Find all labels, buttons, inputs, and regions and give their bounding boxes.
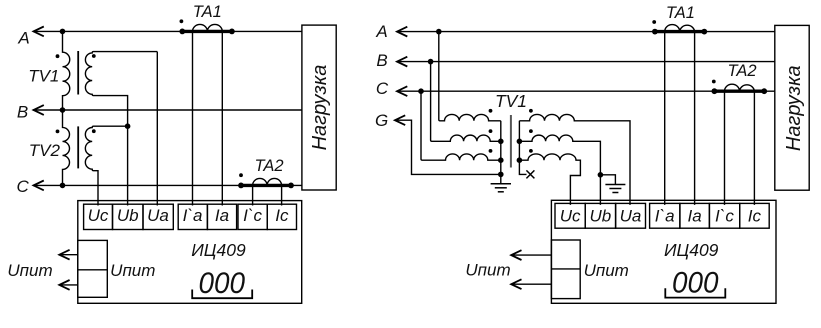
- TA1 right lead to Ia: [694, 32, 696, 205]
- star open end X mark: [526, 170, 534, 178]
- ground secondary bar2: [609, 188, 621, 190]
- meter ИЦ409 body: [78, 201, 302, 304]
- terminal I`c right: [709, 203, 739, 228]
- arrow phase A: [34, 27, 44, 37]
- terminal Ub: [113, 204, 144, 229]
- primary neutral wire: [500, 121, 502, 184]
- TA2 right end dot right: [761, 88, 767, 94]
- TA2 right end dot left: [712, 88, 718, 94]
- supply arrow lower right: [511, 279, 521, 289]
- svg-text:TA1: TA1: [666, 4, 695, 22]
- terminal Uc: [84, 204, 113, 229]
- meter ИЦ409 right body: [551, 200, 776, 303]
- TV1 right primary B polarity dot: [489, 129, 493, 133]
- ground secondary wire: [600, 175, 615, 185]
- svg-text:Uпит: Uпит: [465, 261, 510, 280]
- supply wire lower right: [512, 283, 552, 285]
- TA1 lead to Ia: [221, 31, 223, 205]
- TA1 secondary arcs: [193, 24, 223, 31]
- TA1 lead to I`a: [192, 31, 194, 205]
- secondary star wire: [519, 121, 526, 175]
- svg-text:C: C: [16, 177, 29, 196]
- svg-text:Uпит: Uпит: [7, 261, 52, 280]
- svg-text:Ia: Ia: [688, 206, 702, 225]
- svg-text:Ia: Ia: [215, 206, 229, 225]
- display bracket: [192, 290, 252, 299]
- TV1 right secondary b polarity dot: [529, 129, 533, 133]
- star junction c: [517, 157, 523, 163]
- svg-text:I`c: I`c: [715, 206, 734, 225]
- Uпит divider: [78, 269, 108, 271]
- TV1 right secondary winding a: [519, 114, 630, 205]
- svg-text:B: B: [17, 103, 28, 122]
- terminal I`a: [178, 204, 207, 229]
- Uпит divider right: [551, 268, 580, 270]
- TA2 right secondary arcs: [725, 84, 755, 91]
- supply arrow upper right: [511, 250, 521, 260]
- supply wire upper: [60, 254, 78, 256]
- terminal I`c: [238, 204, 267, 229]
- terminal Ic right: [740, 203, 770, 228]
- arrow phase C: [34, 181, 44, 191]
- junction on C at TV2: [60, 183, 66, 189]
- ground secondary bar3: [612, 192, 618, 194]
- svg-text:Uпит: Uпит: [584, 261, 629, 280]
- svg-text:I`a: I`a: [183, 206, 203, 225]
- wire phase A: [33, 30, 302, 32]
- svg-text:TA1: TA1: [193, 3, 222, 21]
- wire phase C: [33, 184, 302, 186]
- supply wire upper right: [512, 254, 552, 256]
- current transformer TA1 right bar: [655, 30, 705, 33]
- TV1 right primary winding C: [421, 91, 501, 160]
- svg-text:Uпит: Uпит: [110, 261, 155, 280]
- svg-text:TA2: TA2: [254, 157, 283, 175]
- TV1 right secondary winding b: [519, 135, 600, 205]
- TA2 bar end dot left: [238, 183, 244, 189]
- TA2 lead to Ic: [281, 185, 283, 205]
- wire phase B: [33, 109, 302, 111]
- TV1 right primary winding A: [439, 32, 501, 121]
- junction on A right: [436, 29, 442, 35]
- TA2 secondary arcs: [253, 178, 282, 185]
- TV1 right primary C polarity dot: [489, 149, 493, 153]
- svg-text:ИЦ409: ИЦ409: [191, 240, 246, 260]
- svg-text:000: 000: [672, 266, 719, 299]
- TA1 right end dot right: [701, 29, 707, 35]
- star junction b: [517, 139, 523, 145]
- TV1 right secondary c polarity dot: [529, 149, 533, 153]
- supply arrow upper: [59, 250, 69, 260]
- neutral junction W3: [498, 157, 504, 163]
- load box (Нагрузка): [302, 25, 336, 190]
- ground secondary bar1: [605, 184, 625, 186]
- load box right (Нагрузка): [775, 25, 809, 190]
- TV2 secondary polarity dot: [92, 129, 96, 133]
- terminal Ia: [207, 204, 236, 229]
- TV1 secondary winding: [85, 52, 157, 127]
- svg-text:Нагрузка: Нагрузка: [309, 65, 331, 151]
- TV1 right core bar: [510, 115, 512, 168]
- TV1 right secondary winding c: [519, 154, 580, 205]
- svg-text:Ub: Ub: [590, 206, 612, 225]
- TV1 core: [77, 51, 79, 95]
- terminal Ub right: [585, 203, 615, 228]
- wire phase C right: [397, 90, 775, 92]
- TV1 primary polarity dot: [56, 54, 60, 58]
- wire to terminal Ub: [127, 126, 129, 205]
- svg-text:000: 000: [199, 267, 246, 300]
- TA2 right polarity dot: [712, 80, 716, 84]
- TV1 right primary winding B: [431, 62, 501, 142]
- TA1 bar end dot left: [179, 29, 185, 35]
- junction on B at TV1/TV2: [60, 107, 66, 113]
- wire phase B right: [397, 61, 775, 63]
- svg-text:G: G: [375, 111, 388, 130]
- svg-text:Uc: Uc: [560, 206, 581, 225]
- TA2 right lead to Ic: [753, 91, 755, 205]
- current transformer TA2 right bar: [714, 89, 764, 92]
- TV1 secondary polarity dot: [92, 54, 96, 58]
- transformer TV2 primary winding: [63, 110, 70, 185]
- svg-text:TV1: TV1: [495, 91, 527, 111]
- TA2 bar end dot right: [288, 183, 294, 189]
- ground primary bar3: [498, 191, 504, 193]
- TV1 right secondary a polarity dot: [529, 109, 533, 113]
- display bracket right: [665, 288, 725, 297]
- TA1 polarity dot: [180, 19, 184, 23]
- ground primary bar1: [491, 183, 511, 185]
- ground primary bar2: [495, 187, 507, 189]
- arrow phase B right: [397, 57, 407, 67]
- junction secondaries Ub node: [125, 123, 131, 129]
- Uпит supply box: [78, 240, 108, 297]
- current transformer TA1 primary bar: [182, 30, 232, 33]
- svg-text:Ub: Ub: [117, 206, 139, 225]
- svg-text:Ic: Ic: [275, 206, 289, 225]
- wire to terminal Ua: [156, 52, 158, 206]
- junction on C right: [418, 88, 424, 94]
- svg-text:C: C: [376, 79, 389, 98]
- TV1 right primary A polarity dot: [489, 109, 493, 113]
- junction on B right: [428, 59, 434, 65]
- svg-text:Нагрузка: Нагрузка: [783, 65, 805, 151]
- neutral junction G: [498, 172, 504, 178]
- svg-text:Ua: Ua: [147, 206, 169, 225]
- svg-text:A: A: [17, 29, 29, 48]
- junction on A at TV1: [60, 29, 66, 35]
- TA1 right lead to I`a: [664, 32, 666, 205]
- svg-text:TV1: TV1: [28, 67, 59, 86]
- svg-text:I`a: I`a: [655, 206, 675, 225]
- ground junction on Ub lead: [598, 172, 604, 178]
- arrow G: [395, 115, 405, 125]
- TA1 bar end dot right: [229, 29, 235, 35]
- TV2 core: [77, 126, 79, 168]
- arrow phase A right: [397, 27, 407, 37]
- svg-text:TA2: TA2: [727, 62, 756, 80]
- svg-text:A: A: [375, 22, 387, 41]
- supply arrow lower: [59, 280, 69, 290]
- terminal Ua: [143, 204, 173, 229]
- current transformer TA2 primary bar: [241, 184, 292, 187]
- terminal Ia right: [680, 203, 710, 228]
- TA2 right lead to I`c: [724, 91, 726, 205]
- arrow phase C right: [397, 86, 407, 96]
- TA2 polarity dot: [239, 173, 243, 177]
- TV2 primary polarity dot: [56, 130, 60, 134]
- terminal I`a right: [650, 203, 680, 228]
- terminal Uc right: [555, 203, 585, 228]
- transformer TV1 primary winding: [63, 31, 70, 110]
- svg-text:TV2: TV2: [29, 141, 61, 160]
- arrow phase B: [34, 105, 44, 115]
- TV2 secondary winding: [85, 126, 128, 205]
- TA1 right end dot left: [652, 29, 658, 35]
- neutral junction W2: [498, 139, 504, 145]
- svg-text:ИЦ409: ИЦ409: [664, 240, 719, 260]
- wire phase A right: [397, 31, 775, 33]
- TA1 right secondary arcs: [665, 25, 695, 32]
- TA2 lead to I`c: [252, 185, 254, 205]
- supply wire lower: [60, 284, 78, 286]
- svg-text:I`c: I`c: [243, 206, 262, 225]
- svg-text:Uc: Uc: [88, 206, 109, 225]
- svg-text:Ic: Ic: [748, 206, 762, 225]
- terminal Ic: [267, 204, 296, 229]
- TA1 right polarity dot: [652, 20, 656, 24]
- Uпит supply box right: [551, 240, 580, 299]
- wire G to neutral: [395, 120, 501, 174]
- svg-text:B: B: [376, 51, 387, 70]
- svg-text:Ua: Ua: [620, 206, 642, 225]
- terminal Ua right: [616, 203, 646, 228]
